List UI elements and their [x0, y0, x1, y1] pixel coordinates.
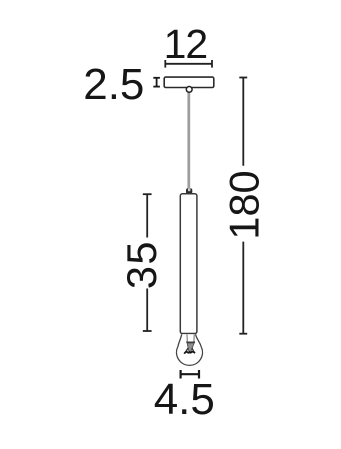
svg-text:35: 35: [118, 240, 165, 289]
svg-text:12: 12: [164, 21, 208, 67]
svg-text:4.5: 4.5: [154, 375, 215, 424]
svg-text:180: 180: [220, 170, 267, 239]
svg-text:2.5: 2.5: [83, 60, 144, 109]
